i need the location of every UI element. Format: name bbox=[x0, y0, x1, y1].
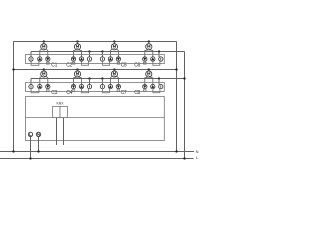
wire L feed to C6 common terminal bbox=[158, 50, 160, 57]
terminal C8 down bbox=[143, 84, 147, 88]
terminal C2 down bbox=[71, 57, 75, 61]
wire N right vertical bbox=[176, 42, 178, 152]
terminal C5 down bbox=[116, 57, 120, 61]
terminal C5 up bbox=[108, 57, 112, 61]
svg-text:N: N bbox=[196, 149, 199, 154]
junction L row2 feed bbox=[183, 77, 185, 79]
wire N input drop bbox=[38, 137, 40, 152]
svg-text:C3: C3 bbox=[51, 90, 57, 96]
terminal C8 up bbox=[151, 84, 155, 88]
svg-text:C7: C7 bbox=[121, 90, 127, 96]
terminal C3 common (L) bbox=[29, 84, 33, 88]
motor M1 (channel C1) bbox=[40, 40, 48, 57]
wire L feed to C4 common terminal bbox=[88, 77, 90, 84]
wire KNX bus - bbox=[63, 118, 65, 146]
wire L distribution row2 bbox=[31, 78, 185, 80]
clamp mark C2 down terminal bbox=[72, 62, 75, 64]
clamp mark C3 down terminal bbox=[47, 90, 50, 92]
jumper C3 common-up clamp bbox=[31, 89, 39, 93]
terminal C2 common (L) bbox=[87, 57, 91, 61]
wire L distribution row1 bbox=[31, 51, 185, 53]
wire L feed to C2 common terminal bbox=[88, 50, 90, 57]
motor M3 (channel C3) bbox=[40, 68, 48, 84]
terminal C3 down bbox=[46, 84, 50, 88]
terminal C6 down bbox=[143, 57, 147, 61]
wire L feed to C5 common terminal bbox=[101, 50, 103, 57]
terminal C4 down bbox=[71, 84, 75, 88]
wire KNX bus + bbox=[56, 118, 58, 146]
clamp mark C1 down terminal bbox=[47, 62, 50, 64]
KNX bus connector block + bbox=[53, 107, 61, 118]
wire N left vertical bbox=[13, 42, 15, 152]
junction L feeder on mains bbox=[183, 157, 185, 159]
clamp mark C6 down terminal bbox=[144, 62, 147, 64]
terminal C2 up bbox=[79, 57, 83, 61]
wire L input drop bbox=[30, 137, 32, 159]
jumper C2 common-up clamp bbox=[82, 61, 89, 65]
terminal C4 up bbox=[79, 84, 83, 88]
junction N mains right bbox=[175, 150, 177, 152]
jumper C1 common-up clamp bbox=[31, 61, 39, 65]
motor M2 (channel C2) bbox=[74, 40, 82, 57]
terminal C7 common (L) bbox=[100, 84, 104, 88]
terminal C7 up bbox=[108, 84, 112, 88]
jumper C7 common-up clamp bbox=[103, 89, 110, 93]
svg-text:KNX: KNX bbox=[57, 102, 65, 106]
terminal C8 common (L) bbox=[159, 84, 163, 88]
terminal C5 common (L) bbox=[100, 57, 104, 61]
terminal C1 up bbox=[38, 57, 42, 61]
junction N row2 left bbox=[12, 68, 14, 70]
terminal C1 down bbox=[46, 57, 50, 61]
motor M5 (channel C5) bbox=[110, 40, 118, 57]
wire L feed to C7 common terminal bbox=[101, 77, 103, 84]
terminal L input bbox=[28, 132, 32, 136]
wire N rail row2 bbox=[14, 69, 177, 71]
actuator device box bbox=[26, 97, 165, 141]
junction N row2 right bbox=[175, 68, 177, 70]
junction N input on mains bbox=[37, 150, 39, 152]
wire N mains rail bbox=[0, 151, 194, 153]
clamp mark C4 down terminal bbox=[72, 90, 75, 92]
clamp mark C8 down terminal bbox=[144, 90, 147, 92]
terminal N input bbox=[36, 132, 40, 136]
jumper C4 common-up clamp bbox=[82, 89, 89, 93]
jumper C5 common-up clamp bbox=[103, 61, 110, 65]
motor M8 (channel C8) bbox=[145, 68, 153, 84]
wire N top rail row1 bbox=[14, 41, 177, 43]
junction N mains left bbox=[12, 150, 14, 152]
clamp mark C5 down terminal bbox=[117, 62, 120, 64]
jumper C6 common-up clamp bbox=[153, 61, 160, 65]
terminal strip row1 bbox=[26, 55, 165, 64]
terminal C1 common (L) bbox=[29, 57, 33, 61]
terminal strip row2 bbox=[26, 83, 165, 92]
wire L feed to C3 common terminal bbox=[30, 79, 32, 85]
wire L right vertical bbox=[184, 52, 186, 159]
svg-text:C8: C8 bbox=[134, 90, 140, 96]
svg-text:L: L bbox=[196, 155, 199, 160]
KNX bus connector block - bbox=[60, 107, 68, 118]
jumper C8 common-up clamp bbox=[153, 89, 160, 93]
terminal C3 up bbox=[38, 84, 42, 88]
terminal C6 up bbox=[151, 57, 155, 61]
terminal C6 common (L) bbox=[159, 57, 163, 61]
wire L feed to C1 common terminal bbox=[30, 52, 32, 58]
wire L mains rail bbox=[0, 158, 194, 160]
terminal C7 down bbox=[116, 84, 120, 88]
motor M6 (channel C6) bbox=[145, 40, 153, 57]
motor M4 (channel C4) bbox=[74, 68, 82, 84]
junction L input on mains bbox=[29, 157, 31, 159]
motor M7 (channel C7) bbox=[110, 68, 118, 84]
wire L feed to C8 common terminal bbox=[158, 77, 160, 84]
terminal C4 common (L) bbox=[87, 84, 91, 88]
actuator partition line bbox=[26, 117, 165, 119]
svg-text:C4: C4 bbox=[66, 90, 72, 96]
clamp mark C7 down terminal bbox=[117, 90, 120, 92]
